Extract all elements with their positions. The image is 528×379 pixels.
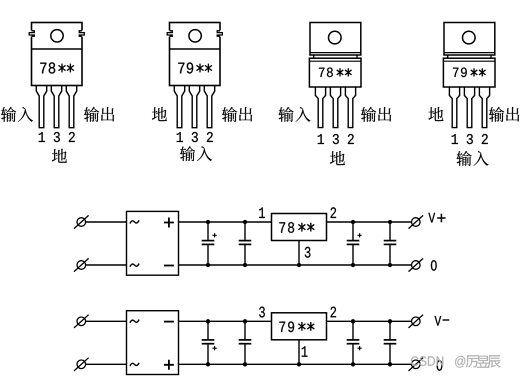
pkg1 78xx right label: [84, 107, 114, 122]
junction dot A4 output bottom: [388, 263, 392, 267]
regulator 79** box: [272, 313, 327, 340]
pkg4 79xx mounting hole: [463, 31, 476, 44]
pkg1 78xx pin leg 1: [36, 86, 46, 128]
junction dot B3 output top: [351, 319, 355, 323]
pkg2 79xx pin leg 2: [189, 86, 199, 128]
pkg3 78xx part label 78**: [319, 68, 352, 78]
watermark @: [455, 356, 465, 368]
wire top rail right segment: [327, 221, 412, 223]
wire top rail right segment: [327, 320, 412, 322]
junction dot A1 filter bottom: [206, 263, 210, 267]
circuit A: input terminal top-left: [74, 215, 89, 228]
pkg4 79xx left label: [428, 107, 443, 121]
capacitor A1 filter: [202, 222, 217, 265]
pkg2 79xx package outline (TO-220 front view): [167, 23, 223, 86]
junction dot B4 output top: [388, 319, 392, 323]
pkg1 78xx part label 78**: [40, 62, 74, 73]
pkg2 79xx tab/body separator line: [170, 48, 221, 50]
junction dot A3 output top: [351, 220, 355, 224]
common label 0: [431, 260, 437, 271]
output terminal B: [409, 315, 424, 328]
watermark name 辰: [488, 355, 501, 367]
common terminal B: [409, 358, 424, 371]
pkg2 79xx bottom label: [180, 146, 212, 161]
regulator label 78**: [279, 222, 314, 233]
circuit B: input terminal bottom-left: [74, 358, 89, 371]
circuit B: input terminal top-left: [74, 315, 89, 328]
pkg4 79xx bottom label: [456, 151, 488, 166]
circuit A: input terminal bottom-left: [74, 258, 89, 271]
pkg2 79xx mounting hole: [189, 30, 201, 42]
watermark name 昱: [477, 356, 490, 368]
pkg3 78xx neck ticks: [314, 55, 357, 58]
pkg4 79xx pin number 1: [452, 134, 458, 144]
wire input top to bridge: [86, 221, 127, 223]
pkg4 79xx pin number 2: [482, 134, 488, 144]
pkg4 79xx pin number 3: [467, 134, 473, 144]
output label V+: [428, 213, 445, 223]
pkg4 79xx neck ticks: [448, 55, 491, 58]
pkg2 79xx right label: [222, 107, 252, 122]
pkg3 78xx left label: [278, 107, 310, 122]
pkg1 78xx package outline (TO-220 front view): [29, 23, 85, 86]
pkg4 79xx body: [443, 58, 495, 87]
capacitor B3 output: [347, 321, 362, 364]
pkg2 79xx pin leg 3: [204, 86, 214, 128]
pkg4 79xx right label: [489, 107, 519, 122]
wire top rail left segment: [179, 221, 272, 223]
junction dot B4 output bottom: [388, 362, 392, 366]
pkg1 78xx pin number 1: [39, 132, 45, 142]
pkg1 78xx pin leg 2: [51, 86, 61, 128]
output terminal A: [409, 215, 424, 228]
bridge rectifier A: [127, 211, 179, 275]
pin number top-right: [331, 207, 337, 218]
pkg4 79xx heatsink tab: [444, 23, 495, 56]
wire bottom rail: [179, 363, 412, 365]
pkg3 78xx pin number 1: [318, 134, 324, 144]
regulator label 79**: [279, 321, 314, 332]
junction dot A4 output top: [388, 220, 392, 224]
wire input bottom to bridge: [86, 363, 127, 365]
junction dot A2 filter top: [243, 220, 247, 224]
capacitor B4 output: [384, 321, 397, 364]
common label 0: [437, 360, 443, 371]
pkg3 78xx pin number 2: [348, 134, 354, 144]
pkg4 79xx part label 79**: [453, 68, 486, 78]
pkg2 79xx pin leg 1: [174, 86, 184, 128]
junction dot B1 filter bottom: [206, 362, 210, 366]
bridge rectifier B: [127, 311, 179, 375]
pin number top-right: [331, 307, 337, 318]
pin number top-left: [259, 307, 265, 318]
regulator ground pin wire: [298, 241, 300, 266]
pkg1 78xx pin number 2: [69, 132, 75, 142]
regulator ground pin wire: [298, 340, 300, 365]
pkg4 79xx pin leg 2: [464, 87, 474, 128]
pkg3 78xx pin leg 2: [330, 87, 340, 128]
pkg1 78xx mounting hole: [51, 30, 63, 42]
pkg1 78xx pin leg 3: [66, 86, 76, 128]
pkg2 79xx left label: [152, 107, 167, 121]
watermark CSDN: [411, 356, 419, 366]
junction dot regulator ground: [297, 362, 301, 366]
pkg2 79xx pin number 1: [177, 132, 183, 142]
pin number bottom: [302, 346, 308, 357]
pkg3 78xx body: [309, 58, 361, 87]
pkg1 78xx pin number 3: [54, 132, 60, 142]
capacitor B1 filter: [202, 321, 217, 364]
capacitor A2 filter: [239, 222, 252, 265]
pkg4 79xx pin leg 1: [449, 87, 459, 128]
junction dot B1 filter top: [206, 319, 210, 323]
pkg3 78xx pin number 3: [333, 134, 339, 144]
capacitor A3 output: [347, 222, 362, 265]
pin number bottom: [305, 247, 311, 258]
pkg1 78xx bottom label: [52, 149, 67, 163]
junction dot A2 filter bottom: [243, 263, 247, 267]
junction dot B3 output bottom: [351, 362, 355, 366]
wire bottom rail: [179, 264, 412, 266]
capacitor B2 filter: [239, 321, 252, 364]
wire top rail left segment: [179, 320, 272, 322]
wire input top to bridge: [86, 320, 127, 322]
pkg2 79xx part label 79**: [178, 62, 212, 73]
pkg3 78xx mounting hole: [329, 31, 342, 44]
pkg3 78xx pin leg 1: [315, 87, 325, 128]
pkg4 79xx pin leg 3: [479, 87, 489, 128]
junction dot A3 output bottom: [351, 263, 355, 267]
pkg1 78xx tab/body separator line: [32, 48, 83, 50]
junction dot A1 filter top: [206, 220, 210, 224]
pkg3 78xx bottom label: [330, 151, 345, 165]
junction dot regulator ground: [297, 263, 301, 267]
watermark name 厉: [466, 355, 479, 367]
common terminal A: [409, 258, 424, 271]
pkg3 78xx pin leg 3: [345, 87, 355, 128]
wire input bottom to bridge: [86, 264, 127, 266]
pin number top-left: [259, 207, 265, 218]
regulator 78** box: [272, 214, 327, 241]
pkg2 79xx pin number 2: [207, 132, 213, 142]
pkg3 78xx right label: [361, 107, 391, 122]
junction dot B2 filter bottom: [243, 362, 247, 366]
junction dot B2 filter top: [243, 319, 247, 323]
pkg2 79xx pin number 3: [192, 132, 198, 142]
pkg1 78xx left label: [1, 107, 33, 122]
pkg3 78xx heatsink tab: [310, 23, 361, 56]
capacitor A4 output: [384, 222, 397, 265]
output label V-: [434, 316, 449, 326]
